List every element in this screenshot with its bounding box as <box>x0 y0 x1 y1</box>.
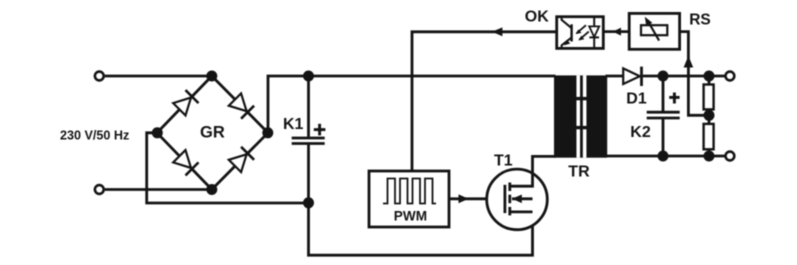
svg-text:PWM: PWM <box>394 209 427 224</box>
svg-text:T1: T1 <box>494 152 513 169</box>
svg-text:TR: TR <box>568 164 590 181</box>
svg-text:OK: OK <box>525 9 549 26</box>
svg-text:K2: K2 <box>630 124 651 141</box>
svg-text:GR: GR <box>200 124 225 142</box>
svg-text:K1: K1 <box>283 116 304 133</box>
svg-text:D1: D1 <box>626 91 647 108</box>
svg-text:RS: RS <box>689 11 711 28</box>
svg-text:230 V/50 Hz: 230 V/50 Hz <box>60 129 129 143</box>
